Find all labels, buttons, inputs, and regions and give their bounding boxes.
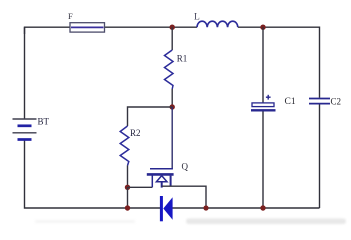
node: junction bottom rail / R2 (125, 205, 130, 210)
wire top left: corner to fuse (25, 27, 71, 34)
wire left side lower (battery to bottom) (25, 140, 161, 209)
diode D (161, 196, 172, 221)
wire right side lower (C2 to bottom) (319, 104, 321, 208)
svg-text:Q: Q (182, 162, 189, 172)
gate lead vertical (151, 176, 153, 188)
transistor Q (MOSFET) (147, 107, 174, 188)
svg-text:R1: R1 (177, 54, 188, 64)
resistor R2 (120, 126, 129, 187)
node: junction R1 bottom / R2 / drain (170, 104, 175, 109)
wire top right: inductor to right corner (238, 27, 320, 98)
capacitor C2 (309, 99, 330, 104)
capacitor C1 (251, 27, 276, 208)
svg-text:C1: C1 (285, 97, 296, 107)
drain vertical from R1 node (171, 107, 173, 169)
node: junction C1 / bottom rail (260, 205, 265, 210)
source center vertical (161, 182, 163, 188)
wire bottom right of diode (172, 207, 319, 209)
faint artifacts bottom (35, 220, 135, 223)
node: junction fuse/R1 (170, 25, 175, 30)
svg-text:F: F (68, 11, 73, 21)
gate bar (147, 173, 174, 176)
svg-text:L: L (194, 13, 200, 23)
node: junction inductor/C1 (260, 25, 265, 30)
wire R2 top (128, 107, 173, 126)
wire source to bottom rail (162, 186, 206, 208)
wire gate lead horizontal (128, 186, 153, 188)
source right vertical (170, 176, 172, 187)
wire top: fuse to inductor (105, 26, 198, 28)
fuse F (70, 23, 105, 32)
channel line (150, 168, 173, 170)
inductor L (197, 21, 238, 27)
node: junction source / bottom rail (203, 205, 208, 210)
svg-text:C2: C2 (331, 97, 342, 107)
substrate arrow (156, 176, 167, 182)
node: junction R2 bottom / gate (125, 185, 130, 190)
svg-text:R2: R2 (130, 128, 141, 138)
wire left side upper (to battery) (24, 27, 26, 119)
svg-text:BT: BT (38, 117, 50, 127)
wire R2 to bottom rail (127, 187, 129, 208)
battery BT (13, 119, 37, 140)
resistor R1 (165, 27, 174, 107)
